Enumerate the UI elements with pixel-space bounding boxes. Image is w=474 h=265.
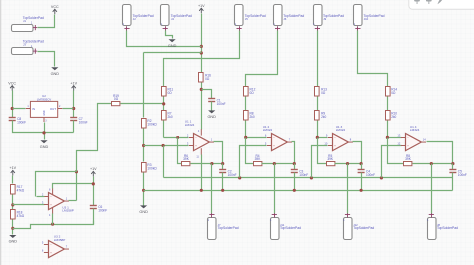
toolbar overlay — [409, 0, 474, 9]
op-amp U1.2 LM324 — [263, 125, 292, 151]
svg-text:GND: GND — [9, 240, 18, 244]
svg-text:39K: 39K — [327, 157, 334, 161]
svg-text:GND: GND — [44, 110, 46, 115]
junction bias mid — [142, 144, 145, 147]
svg-text:LM324: LM324 — [185, 123, 195, 127]
junction output tap — [210, 162, 213, 165]
wire vref up to R15 — [77, 104, 112, 172]
ground C1 — [207, 110, 216, 119]
wire col mid — [245, 97, 247, 111]
junction output/cap — [221, 162, 224, 165]
junction VCC/C8 — [11, 107, 14, 110]
svg-text:100nF: 100nF — [98, 209, 107, 213]
wire R17-R18 — [12, 195, 14, 210]
svg-text:TopSolderPad: TopSolderPad — [171, 14, 192, 18]
svg-text:TopSolderPad: TopSolderPad — [23, 39, 44, 43]
junction +1V pad J2 — [200, 45, 203, 48]
junction feedback tap — [176, 136, 179, 139]
capacitor C7 100nF — [70, 117, 87, 125]
svg-text:0Ω: 0Ω — [168, 91, 173, 95]
wire J6 to stage2 — [246, 31, 278, 87]
wire vref to stage1 node — [121, 103, 164, 105]
supply +1V supply out — [70, 81, 77, 90]
svg-text:100nF: 100nF — [79, 121, 88, 125]
svg-text:LM324: LM324 — [263, 128, 273, 132]
connector J7 TopSolderPad — [208, 213, 239, 239]
junction bias riser — [380, 176, 383, 179]
connector J5 TopSolderPad — [235, 5, 266, 31]
wire C7 down — [73, 121, 75, 133]
svg-text:2k0: 2k0 — [168, 115, 173, 119]
wire to output pad — [211, 164, 213, 214]
svg-text:TopSolderPad: TopSolderPad — [23, 16, 44, 20]
wire divider to U3.1 + — [13, 204, 45, 206]
wire to output pad — [274, 164, 276, 214]
svg-text:LM358P: LM358P — [62, 209, 74, 213]
wire to output pad — [347, 164, 349, 214]
capacitor C8 100nF — [9, 117, 26, 125]
resistor R2 100k&#937; — [142, 119, 158, 129]
wire U3.1 feedback loop — [36, 172, 77, 197]
junction divider mid — [11, 203, 14, 206]
wire feedback row — [413, 163, 453, 165]
svg-text:GND: GND — [51, 72, 60, 76]
svg-text:100nF: 100nF — [458, 173, 467, 177]
svg-text:0Ω: 0Ω — [321, 91, 326, 95]
resistor R6 39K — [182, 154, 190, 166]
wire feedback row — [262, 163, 295, 165]
connector J3 TopSolderPad — [12, 39, 44, 54]
junction bias riser — [310, 176, 313, 179]
svg-text:J10: J10 — [364, 17, 369, 21]
wire +1V to U1.1 V+ — [201, 83, 203, 130]
wire to U3.1 - — [37, 196, 45, 198]
wire output — [427, 142, 453, 164]
svg-text:100nF: 100nF — [228, 173, 237, 177]
connector J12 TopSolderPad — [343, 213, 374, 239]
wire feedback down — [388, 138, 404, 164]
svg-text:GND: GND — [168, 44, 177, 48]
supply +1V supply U3.1 — [90, 167, 97, 176]
svg-text:2k0: 2k0 — [391, 115, 396, 119]
wire col to pin — [245, 121, 247, 138]
wire output — [214, 142, 223, 164]
svg-text:VCC: VCC — [8, 81, 16, 85]
svg-text:J5: J5 — [245, 17, 248, 21]
junction feedback tap — [386, 136, 389, 139]
svg-text:39K: 39K — [405, 157, 412, 161]
wire to output pad — [431, 164, 433, 214]
supply VCC supply — [51, 5, 59, 14]
capacitor C5 100nF — [449, 169, 466, 177]
capacitor C1 100nF — [208, 98, 225, 106]
wire C6 to gnd rail — [93, 209, 95, 225]
svg-text:0Ω: 0Ω — [205, 77, 210, 81]
junction gnd rail left — [142, 189, 145, 192]
voltage regulator U2 LM7805 — [26, 94, 63, 122]
junction output/cap — [293, 162, 296, 165]
resistor R8 39K — [404, 154, 412, 166]
junction feedback tap — [244, 136, 247, 139]
resistor R3 100k&#937; — [142, 163, 158, 173]
resistor R8 2k0 — [244, 111, 255, 121]
wire J3 to GND — [38, 52, 55, 67]
svg-text:−: − — [407, 136, 409, 140]
junction vref node — [162, 102, 165, 105]
wire R3 to gnd — [143, 173, 145, 206]
svg-text:J4: J4 — [171, 17, 174, 21]
resistor R13 0&#937; — [315, 87, 328, 97]
resistor R12 0&#937; — [244, 87, 256, 97]
junction bias riser — [238, 176, 241, 179]
svg-text:−: − — [273, 136, 275, 140]
resistor R11 0&#937; — [162, 87, 174, 97]
connector J1 TopSolderPad — [12, 16, 44, 32]
wire J10 to stage4 — [358, 31, 388, 87]
op-amp U1.4 LM324 — [397, 125, 426, 151]
capacitor C6 100nF — [90, 205, 107, 213]
wire +1V center down — [201, 14, 203, 73]
junction bias riser — [162, 144, 165, 147]
junction cap gnd — [360, 189, 363, 192]
svg-text:100nF: 100nF — [299, 173, 308, 177]
wire bias to + input — [240, 146, 267, 178]
svg-text:+: + — [334, 144, 336, 148]
connector J9 TopSolderPad — [313, 5, 344, 31]
svg-text:0Ω: 0Ω — [391, 91, 396, 95]
wire to inverting input — [388, 137, 402, 139]
junction +1V R2 branch — [200, 51, 203, 54]
wire to inverting input — [246, 137, 267, 139]
junction output tap — [273, 162, 276, 165]
svg-text:LM7805CV: LM7805CV — [37, 98, 52, 102]
svg-text:−: − — [50, 195, 52, 199]
svg-text:+1V: +1V — [198, 4, 205, 8]
wire R2-R3 — [143, 129, 145, 162]
svg-text:IN: IN — [32, 107, 35, 111]
svg-text:LM358P: LM358P — [54, 238, 66, 242]
connector J6 TopSolderPad — [273, 5, 304, 31]
wire feedback down — [246, 138, 254, 164]
wire bias riser down — [163, 146, 165, 178]
wire output — [353, 142, 362, 164]
connector J4 TopSolderPad — [161, 5, 192, 31]
capacitor C2 100nF — [219, 169, 236, 177]
svg-text:TopSolderPad: TopSolderPad — [218, 226, 239, 230]
junction output/cap — [360, 162, 363, 165]
wire to inverting input — [164, 137, 189, 139]
wire to cap — [222, 164, 224, 170]
connector J11 TopSolderPad — [270, 213, 301, 239]
svg-text:GND: GND — [207, 115, 216, 119]
wire col to pin — [317, 121, 319, 138]
junction U2 gnd — [42, 131, 45, 134]
wire J2 to +1V — [127, 31, 202, 47]
wire cap to gnd rail end — [452, 173, 454, 191]
wire VCC to J1 — [38, 15, 55, 28]
svg-text:J3: J3 — [23, 42, 26, 46]
op-amp U1.3 LM324 — [324, 125, 353, 151]
svg-text:TopSolderPad: TopSolderPad — [353, 226, 374, 230]
wire +1V down to C6 — [93, 177, 95, 206]
op-amp U3.1 LM358P — [42, 193, 74, 213]
wire cap to gnd rail — [222, 173, 224, 191]
wire U2 OUT — [63, 108, 74, 110]
svg-text:LM324: LM324 — [336, 128, 346, 132]
capacitor C3 100nF — [291, 169, 308, 177]
ground U2 — [40, 140, 49, 149]
svg-text:GND: GND — [40, 145, 49, 149]
svg-text:47kΩ: 47kΩ — [17, 214, 25, 218]
connector J8 TopSolderPad — [427, 213, 458, 239]
wire J9 to stage3 — [317, 31, 319, 87]
svg-text:+1V: +1V — [70, 81, 77, 85]
svg-text:J6: J6 — [283, 17, 286, 21]
junction output tap — [430, 162, 433, 165]
resistor R10 2k0 — [386, 111, 398, 121]
resistor R7 2k0 — [162, 111, 173, 121]
resistor R18 47k&#937; — [11, 210, 25, 220]
wire U3.1 V- — [52, 214, 54, 225]
wire U3.1 V+ to +1V — [53, 184, 94, 189]
junction feedback tap — [316, 136, 319, 139]
junction cap gnd — [221, 189, 224, 192]
wire bias to + input — [382, 146, 402, 178]
wire to cap — [452, 164, 454, 170]
svg-text:2k0: 2k0 — [250, 115, 255, 119]
wire feedback row — [191, 163, 223, 165]
wire col mid — [317, 97, 319, 111]
wire col mid — [163, 97, 165, 111]
wire gnd rail regulator — [13, 121, 74, 133]
wire gnd rail U3 — [13, 221, 94, 229]
wire gnd rail — [144, 190, 453, 192]
junction +1V/C7 — [72, 107, 75, 110]
wire +1V to R2 col — [144, 52, 202, 54]
wire to cap — [361, 164, 363, 170]
svg-text:+: + — [407, 144, 409, 148]
svg-text:39K: 39K — [255, 157, 262, 161]
svg-text:+1V: +1V — [9, 166, 16, 170]
wire R18 to GND — [12, 220, 14, 235]
junction output/cap — [451, 162, 454, 165]
junction output tap — [346, 162, 349, 165]
wire bias to + input — [312, 146, 328, 178]
svg-text:100kΩ: 100kΩ — [147, 167, 157, 171]
wire bias rail — [164, 177, 453, 179]
wire U2 gnd — [44, 123, 46, 140]
supply +1V supply divider — [9, 166, 16, 175]
wire feedback down — [318, 138, 327, 164]
wire col to pin — [387, 121, 389, 138]
wire U1.1 V- to gnd rail — [201, 155, 203, 191]
svg-text:GND: GND — [139, 210, 148, 214]
wire +1V to R17 — [12, 176, 14, 184]
ground R3 — [139, 205, 148, 214]
svg-text:J9: J9 — [323, 17, 326, 21]
resistor R4 39K — [254, 154, 262, 166]
wire feedback down — [178, 138, 182, 164]
junction U3.1 V- rail — [51, 223, 54, 226]
svg-text:2k0: 2k0 — [321, 115, 326, 119]
resistor R16 0&#937; — [199, 73, 212, 83]
wire to cap — [294, 164, 296, 170]
connector J10 TopSolderPad — [354, 5, 385, 31]
svg-text:+: + — [50, 251, 52, 255]
svg-text:TopSolderPad: TopSolderPad — [437, 226, 458, 230]
wire col to pin — [163, 121, 165, 138]
wire cap to gnd rail — [294, 173, 296, 191]
svg-text:J2: J2 — [133, 17, 136, 21]
op-amp U3.2 LM358P — [42, 235, 69, 258]
svg-text:TopSolderPad: TopSolderPad — [323, 14, 344, 18]
resistor R19 0&#937; — [112, 94, 120, 106]
svg-text:+: + — [50, 203, 52, 207]
connector J2 TopSolderPad — [123, 5, 154, 31]
junction C1 branch — [200, 88, 203, 91]
svg-text:+1V: +1V — [90, 167, 97, 171]
ground divider — [9, 235, 18, 244]
junction R18/gnd rail — [11, 227, 14, 230]
svg-text:LM324: LM324 — [410, 128, 420, 132]
wire col mid — [387, 97, 389, 111]
wire to U2 IN — [13, 108, 26, 110]
wire U3.1 out stub — [69, 200, 77, 202]
svg-text:−: − — [334, 136, 336, 140]
supply +1V supply center — [198, 4, 205, 13]
wire J5 to stage1 — [164, 31, 240, 87]
wire down to R2 — [143, 53, 145, 118]
op-amp U3.1 power pins — [52, 188, 54, 195]
op-amp U1.1 power pins — [200, 129, 202, 135]
svg-text:VCC: VCC — [51, 5, 59, 9]
wire feedback row — [335, 163, 362, 165]
wire C1 to gnd — [211, 102, 213, 111]
wire VCC rail — [12, 91, 14, 118]
junction +1V/C6 — [92, 182, 95, 185]
svg-text:TopSolderPad: TopSolderPad — [280, 226, 301, 230]
svg-text:OUT: OUT — [50, 107, 56, 111]
svg-text:39K: 39K — [183, 157, 190, 161]
wire +1V — [73, 91, 75, 118]
resistor R17 47k&#937; — [11, 185, 25, 195]
supply VCC supply 2 — [8, 81, 16, 90]
capacitor C4 100nF — [358, 169, 375, 177]
svg-text:+: + — [273, 144, 275, 148]
svg-text:100nF: 100nF — [366, 173, 375, 177]
svg-text:100nF: 100nF — [217, 102, 226, 106]
resistor R5 39K — [327, 154, 335, 166]
wire U3.1 out up — [76, 172, 78, 201]
wire J4 to GND — [166, 31, 173, 39]
resistor R14 0&#937; — [386, 87, 398, 97]
wire bias to U1.1 + — [144, 145, 189, 147]
svg-text:−: − — [50, 243, 52, 247]
junction U1.1 V- — [200, 189, 203, 192]
resistor R9 2k0 — [315, 111, 327, 121]
ground — [51, 67, 60, 76]
svg-text:+: + — [195, 144, 197, 148]
svg-text:100nF: 100nF — [17, 121, 26, 125]
svg-text:J1: J1 — [23, 19, 26, 23]
wire output — [292, 142, 295, 164]
wire cap to gnd rail — [361, 173, 363, 191]
svg-text:100kΩ: 100kΩ — [147, 123, 157, 127]
svg-text:−: − — [195, 136, 197, 140]
wire to C1 — [202, 90, 212, 99]
wire to inverting input — [318, 137, 328, 139]
junction cap gnd — [293, 189, 296, 192]
op-amp U1.1 LM324 — [185, 119, 214, 150]
svg-text:0Ω: 0Ω — [250, 91, 255, 95]
svg-text:0Ω: 0Ω — [114, 97, 119, 101]
junction U3.1 feedback — [75, 170, 78, 173]
svg-text:47kΩ: 47kΩ — [17, 188, 25, 192]
ground J4 — [168, 39, 177, 48]
